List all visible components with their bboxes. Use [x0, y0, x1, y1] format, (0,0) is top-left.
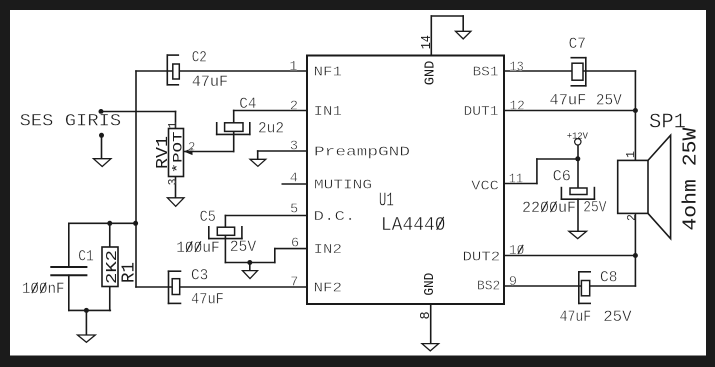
svg-text:47uF: 47uF	[560, 308, 592, 326]
svg-text:3: 3	[167, 178, 180, 185]
svg-text:D.C.: D.C.	[314, 209, 356, 225]
svg-text:NF2: NF2	[314, 281, 343, 297]
svg-text:C1: C1	[78, 247, 94, 265]
svg-text:BS1: BS1	[473, 65, 499, 81]
svg-text:C3: C3	[191, 266, 208, 284]
svg-text:LA4440: LA4440	[381, 214, 446, 236]
svg-text:4: 4	[290, 171, 298, 186]
svg-text:47uF: 47uF	[550, 92, 587, 110]
svg-text:U1: U1	[379, 189, 394, 211]
svg-text:3: 3	[290, 140, 298, 155]
svg-text:C4: C4	[239, 95, 256, 113]
svg-text:14: 14	[420, 35, 435, 49]
svg-text:6: 6	[291, 236, 299, 251]
svg-text:2: 2	[626, 214, 639, 221]
svg-text:SES GIRIS: SES GIRIS	[20, 111, 122, 131]
svg-text:1: 1	[625, 151, 638, 158]
svg-text:GND: GND	[423, 61, 439, 86]
svg-text:8: 8	[419, 311, 434, 319]
svg-text:BS2: BS2	[477, 279, 500, 295]
svg-text:2u2: 2u2	[258, 120, 284, 138]
svg-text:25V: 25V	[603, 308, 632, 326]
svg-text:1: 1	[289, 60, 297, 75]
svg-text:GND: GND	[422, 273, 438, 296]
svg-text:C5: C5	[200, 208, 216, 226]
svg-text:7: 7	[290, 276, 298, 291]
svg-text:11: 11	[509, 173, 524, 188]
svg-text:100nF: 100nF	[22, 280, 65, 298]
svg-text:C6: C6	[553, 167, 571, 185]
svg-text:25V: 25V	[230, 238, 257, 256]
svg-text:100uF: 100uF	[176, 239, 220, 257]
svg-text:IN2: IN2	[314, 242, 343, 258]
svg-text:C2: C2	[192, 48, 207, 66]
svg-text:2: 2	[188, 141, 196, 155]
svg-text:13: 13	[510, 60, 524, 75]
svg-text:MUTING: MUTING	[314, 178, 372, 194]
svg-text:DUT1: DUT1	[464, 104, 499, 120]
svg-text:*POT: *POT	[171, 131, 186, 173]
svg-text:4ohm 25W: 4ohm 25W	[680, 127, 702, 231]
svg-text:47uF: 47uF	[192, 73, 229, 91]
svg-text:1: 1	[167, 122, 180, 129]
svg-text:9: 9	[509, 275, 517, 290]
svg-text:C8: C8	[600, 269, 617, 287]
svg-text:47uF: 47uF	[191, 290, 224, 308]
svg-text:12: 12	[510, 100, 525, 115]
svg-text:5: 5	[290, 202, 298, 217]
svg-text:2: 2	[290, 99, 298, 114]
svg-text:DUT2: DUT2	[463, 249, 501, 265]
svg-text:+12V: +12V	[567, 131, 588, 142]
svg-text:25V: 25V	[583, 198, 607, 216]
svg-text:R1: R1	[120, 262, 140, 283]
svg-text:C7: C7	[569, 35, 586, 53]
svg-text:IN1: IN1	[314, 104, 343, 120]
svg-text:NF1: NF1	[314, 65, 343, 81]
svg-text:VCC: VCC	[471, 178, 499, 194]
svg-text:25V: 25V	[596, 92, 622, 110]
svg-text:PreampGND: PreampGND	[314, 144, 410, 160]
svg-text:2200uF: 2200uF	[522, 199, 576, 217]
